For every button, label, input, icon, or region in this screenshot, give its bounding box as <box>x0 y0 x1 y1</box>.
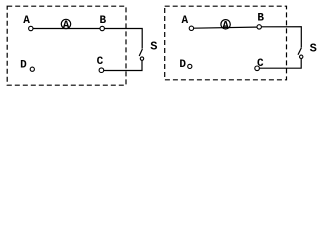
node B (right box) <box>257 25 261 29</box>
node A (left box) <box>29 26 33 30</box>
svg-text:A: A <box>63 20 70 32</box>
ammeter A (right box) <box>221 20 230 33</box>
node C (left box) <box>99 68 104 73</box>
wire node A to node B (left box) <box>33 28 100 30</box>
node D (left box) <box>30 67 34 71</box>
wire node A to node B (right box) <box>194 27 257 28</box>
wire switch bottom to node C (right box) <box>259 59 301 69</box>
svg-text:A: A <box>23 15 30 27</box>
svg-text:B: B <box>100 15 107 27</box>
svg-text:S: S <box>310 42 317 56</box>
node A (right box) <box>189 26 193 30</box>
wire node B to switch top (left box) <box>104 29 142 49</box>
wire switch bottom to node C (left box) <box>104 60 142 70</box>
wire node B to switch top (right box) <box>261 27 301 48</box>
svg-text:D: D <box>179 59 186 71</box>
node C (right box) <box>255 66 260 71</box>
left circuit dashed boundary box <box>7 6 126 85</box>
switch S (right box) <box>298 48 303 59</box>
svg-text:B: B <box>257 13 264 25</box>
svg-text:D: D <box>20 60 27 72</box>
svg-text:A: A <box>222 20 229 32</box>
svg-text:A: A <box>182 15 189 27</box>
node D (right box) <box>188 64 192 68</box>
svg-text:C: C <box>97 56 104 68</box>
switch S (left box) <box>139 49 144 60</box>
svg-text:S: S <box>150 40 157 54</box>
right circuit dashed boundary box <box>165 6 287 80</box>
ammeter A (left box) <box>61 19 70 32</box>
node B (left box) <box>100 26 104 30</box>
